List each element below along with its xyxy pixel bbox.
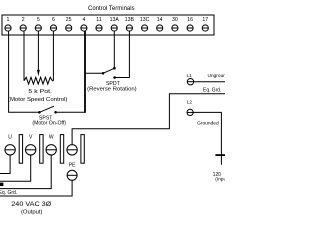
svg-text:1: 1 (7, 17, 10, 23)
crossbar on L2 drop (cut at edge) (215, 154, 225, 156)
terminal strip box (2, 15, 214, 35)
wire SPST to terminal 4 line (57, 111, 85, 113)
svg-text:4: 4 (82, 17, 85, 23)
wire U output to left edge (0, 155, 10, 174)
wire terminal 13A down to SPDT throw A (113, 31, 115, 67)
svg-text:Ungrounded: Ungrounded (208, 73, 226, 79)
svg-text:5: 5 (37, 17, 40, 23)
svg-text:L1: L1 (187, 73, 193, 79)
terminal V (26, 145, 36, 155)
terminal 17 (202, 17, 208, 31)
terminal PE drive (67, 145, 77, 155)
svg-text:L2: L2 (187, 99, 193, 105)
terminal 4 (81, 17, 87, 31)
svg-text:2: 2 (22, 17, 25, 23)
svg-text:PE: PE (69, 163, 76, 169)
svg-text:5 k Pot.: 5 k Pot. (28, 89, 52, 95)
wire terminal 1 down to SPST (9, 31, 39, 112)
cut label fragment at left edge (0, 183, 3, 187)
svg-text:(Input): (Input) (215, 177, 225, 183)
svg-text:(Reverse Rotation): (Reverse Rotation) (87, 86, 137, 92)
svg-text:W: W (49, 134, 54, 140)
terminal W (46, 145, 56, 155)
svg-text:30: 30 (172, 17, 178, 23)
terminal L1 (187, 79, 193, 85)
svg-text:14: 14 (157, 17, 163, 23)
terminal block bar 3 (60, 135, 63, 164)
terminal 16 (187, 17, 193, 31)
svg-text:16: 16 (187, 17, 193, 23)
SPDT switch S2 (102, 67, 116, 79)
wire W output to left edge (0, 155, 51, 189)
terminal 30 (172, 17, 178, 31)
svg-text:U: U (8, 134, 12, 140)
terminal block bar 4 (81, 135, 84, 164)
wire V output to left edge (0, 155, 31, 181)
svg-text:(Output): (Output) (21, 210, 43, 216)
wire terminal 4 down (common) (84, 31, 86, 113)
terminal 13C (140, 17, 150, 31)
wire L1 to right edge (194, 81, 225, 83)
svg-text:17: 17 (202, 17, 208, 23)
wire equipment ground from right edge to PE terminal (72, 94, 225, 145)
terminal 6 (50, 17, 56, 31)
terminal block bar 2 (40, 135, 43, 164)
terminal 13B (125, 17, 135, 31)
svg-text:13C: 13C (140, 17, 150, 23)
svg-text:(Motor On-Off): (Motor On-Off) (32, 121, 66, 127)
SPST switch S1 (38, 106, 57, 113)
svg-text:Eq. Grd.: Eq. Grd. (0, 190, 17, 196)
potentiometer R1 5k zigzag (24, 77, 53, 84)
terminal block bar 1 (19, 135, 22, 164)
wire terminal 13B down to SPDT throw B (116, 31, 130, 77)
wire terminal 2 down to pot (23, 31, 25, 81)
terminal U (5, 145, 15, 155)
wire terminal 6 down to pot (52, 31, 54, 81)
terminal 5 (35, 17, 41, 31)
terminal PE ground (67, 170, 77, 180)
svg-text:25: 25 (66, 17, 72, 23)
svg-text:V: V (29, 134, 33, 140)
terminal 13A (110, 17, 120, 31)
terminal 25 (66, 17, 72, 31)
svg-text:Control Terminals: Control Terminals (88, 6, 135, 12)
svg-text:13A: 13A (110, 17, 120, 23)
wire L2 right and down (193, 112, 221, 164)
pot wiper arrow from terminal 5 (37, 31, 40, 76)
svg-text:Grounded: Grounded (197, 121, 219, 127)
terminal L2 (187, 109, 193, 115)
svg-text:6: 6 (52, 17, 55, 23)
terminal 14 (157, 17, 163, 31)
svg-text:13B: 13B (125, 17, 135, 23)
terminal 1 (5, 17, 11, 31)
svg-text:(Motor Speed Control): (Motor Speed Control) (8, 97, 68, 103)
terminal 2 (20, 17, 26, 31)
wire SPDT common to terminal 4 line (85, 72, 103, 74)
svg-text:240 VAC 3Ø: 240 VAC 3Ø (11, 201, 51, 208)
svg-text:Eq. Grd.: Eq. Grd. (203, 87, 221, 93)
terminal 11 (96, 17, 102, 31)
wire equipment ground to left edge (0, 180, 72, 196)
svg-text:11: 11 (96, 17, 101, 23)
